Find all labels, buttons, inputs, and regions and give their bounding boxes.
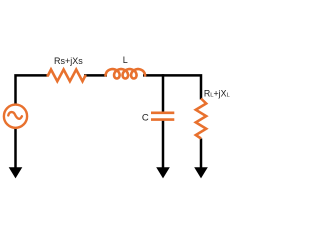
wire: capacitor C bottom to ground arrow <box>162 120 165 170</box>
load resistor RL+jXL zigzag <box>196 99 206 139</box>
wire: inductor L to top-right corner, down to load <box>143 75 201 99</box>
svg-text:RL+jXL: RL+jXL <box>204 88 230 98</box>
svg-text:C: C <box>142 112 149 123</box>
ground arrow under capacitor <box>156 167 170 178</box>
ground arrow under load resistor <box>194 167 208 178</box>
svg-text:Rs+jXs: Rs+jXs <box>54 56 83 66</box>
ground arrow under source <box>9 167 23 178</box>
inductor L coil <box>106 69 146 78</box>
wire: junction at node to capacitor C <box>162 74 165 113</box>
wire: resistor Rs to inductor L <box>84 74 107 77</box>
AC source circle <box>4 105 27 128</box>
capacitor C top plate <box>151 112 174 115</box>
resistor Rs+jXs zigzag <box>47 70 87 82</box>
wire: source bottom to ground arrow <box>14 128 17 171</box>
svg-text:L: L <box>123 55 128 65</box>
capacitor C bottom plate <box>151 118 174 121</box>
wire: load resistor bottom to ground arrow <box>200 139 203 171</box>
AC source sine symbol <box>8 112 22 119</box>
wire: top-left horizontal segment <box>16 75 48 104</box>
